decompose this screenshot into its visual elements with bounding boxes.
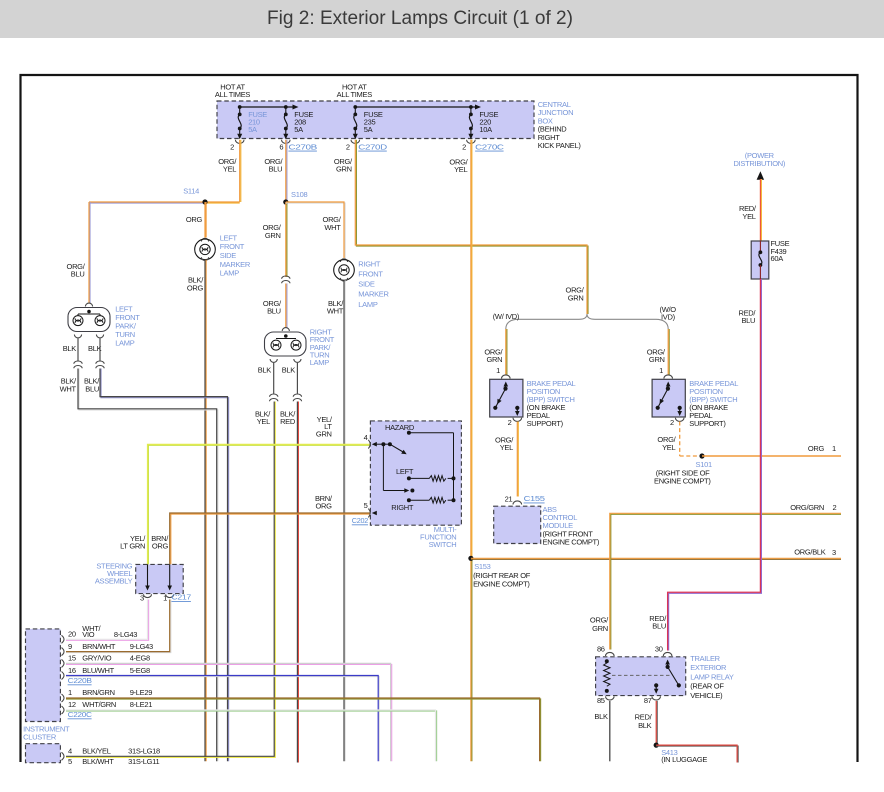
svg-text:1: 1 [68,688,72,697]
svg-text:BLK: BLK [63,344,77,353]
svg-text:9-LG43: 9-LG43 [130,642,153,651]
svg-text:YEL: YEL [257,417,270,426]
svg-text:WHT: WHT [60,385,77,394]
svg-text:21: 21 [505,494,513,503]
svg-text:C155: C155 [524,494,545,503]
svg-text:GRN: GRN [592,624,608,633]
svg-text:ORG/GRN: ORG/GRN [790,503,824,512]
svg-text:2: 2 [508,418,512,427]
svg-text:VIO: VIO [82,630,94,639]
svg-text:BLK: BLK [282,365,296,374]
svg-text:GRY/VIO: GRY/VIO [82,654,111,663]
svg-text:RED: RED [280,417,296,426]
svg-text:C270B: C270B [288,142,317,151]
svg-text:2: 2 [833,503,837,512]
svg-text:4: 4 [364,433,368,442]
svg-text:ORG: ORG [187,283,204,292]
svg-text:GRN: GRN [487,355,503,364]
svg-text:5: 5 [364,501,368,510]
svg-text:ORG: ORG [808,444,825,453]
svg-text:LAMP: LAMP [220,269,240,278]
svg-text:LEFT: LEFT [396,467,414,476]
svg-text:4: 4 [68,747,72,756]
svg-text:BLU: BLU [269,165,283,174]
svg-text:LAMP: LAMP [310,358,330,367]
svg-text:BRN/WHT: BRN/WHT [82,642,116,651]
svg-text:GRN: GRN [336,165,352,174]
svg-text:WHT: WHT [324,223,341,232]
svg-text:VEHICLE): VEHICLE) [690,691,723,700]
svg-text:2: 2 [462,142,466,151]
svg-text:20: 20 [68,630,76,639]
svg-text:12: 12 [68,700,76,709]
svg-text:1: 1 [496,366,500,375]
svg-text:IVD): IVD) [661,312,676,321]
svg-text:LAMP RELAY: LAMP RELAY [690,672,734,681]
svg-text:YEL: YEL [454,165,467,174]
svg-text:S153: S153 [474,562,490,571]
svg-text:5-EG8: 5-EG8 [130,666,150,675]
svg-text:87: 87 [644,696,652,705]
svg-text:31S-LG18: 31S-LG18 [128,747,160,756]
svg-text:SIDE: SIDE [358,280,375,289]
svg-text:10A: 10A [479,125,492,134]
svg-text:LT GRN: LT GRN [120,541,145,550]
svg-text:BLU/WHT: BLU/WHT [82,666,114,675]
svg-text:FRONT: FRONT [358,270,383,279]
svg-text:8-LE21: 8-LE21 [130,700,153,709]
svg-text:S114: S114 [183,186,199,195]
svg-text:LEFT: LEFT [220,233,238,242]
svg-text:ALL TIMES: ALL TIMES [337,90,373,99]
svg-text:SIDE: SIDE [220,251,237,260]
svg-text:YEL: YEL [742,212,755,221]
svg-text:GRN: GRN [568,293,584,302]
svg-text:BLK/WHT: BLK/WHT [82,757,114,766]
svg-text:SUPPORT): SUPPORT) [689,419,726,428]
svg-text:2: 2 [670,418,674,427]
svg-text:60A: 60A [771,254,784,263]
svg-text:TRAILER: TRAILER [690,654,720,663]
svg-text:WHT/GRN: WHT/GRN [82,700,116,709]
svg-text:ORG: ORG [152,541,169,550]
svg-text:6: 6 [279,142,283,151]
svg-text:RIGHT: RIGHT [358,259,381,268]
svg-text:85: 85 [597,696,605,705]
svg-text:9-LE29: 9-LE29 [130,688,153,697]
svg-text:BLU: BLU [741,316,755,325]
svg-text:1: 1 [659,366,663,375]
svg-text:KICK PANEL): KICK PANEL) [538,141,582,150]
svg-text:ENGINE COMPT): ENGINE COMPT) [473,580,530,589]
svg-text:15: 15 [68,654,76,663]
svg-text:1: 1 [832,444,836,453]
svg-text:BLU: BLU [85,385,99,394]
svg-text:86: 86 [597,644,605,653]
svg-text:2: 2 [346,142,350,151]
svg-text:1: 1 [163,593,167,602]
svg-text:Fig 2: Exterior Lamps Circuit: Fig 2: Exterior Lamps Circuit (1 of 2) [267,8,573,29]
svg-text:EXTERIOR: EXTERIOR [690,663,727,672]
svg-text:SUPPORT): SUPPORT) [527,419,564,428]
svg-text:LAMP: LAMP [358,300,378,309]
svg-text:GRN: GRN [265,231,281,240]
svg-text:16: 16 [68,666,76,675]
svg-text:BLK: BLK [258,365,272,374]
svg-text:GRN: GRN [649,355,665,364]
svg-text:5A: 5A [294,125,303,134]
svg-text:(IN LUGGAGE: (IN LUGGAGE [661,755,707,764]
svg-text:(W/ IVD): (W/ IVD) [493,312,520,321]
svg-text:C270C: C270C [475,142,505,151]
svg-text:CLUSTER: CLUSTER [23,732,57,741]
svg-text:8-LG43: 8-LG43 [114,630,137,639]
svg-text:4-EG8: 4-EG8 [130,654,150,663]
svg-text:BLU: BLU [652,621,666,630]
svg-text:3: 3 [832,548,836,557]
svg-text:ENGINE COMPT): ENGINE COMPT) [543,538,600,547]
svg-text:WHT: WHT [327,306,344,315]
svg-text:YEL: YEL [662,443,675,452]
svg-text:C220B: C220B [68,676,92,685]
svg-text:RIGHT: RIGHT [391,503,414,512]
svg-text:30: 30 [655,644,663,653]
svg-text:ORG: ORG [316,501,333,510]
svg-text:SWITCH: SWITCH [429,540,457,549]
svg-text:3: 3 [140,593,144,602]
svg-text:C217: C217 [171,593,191,602]
svg-text:BLK/YEL: BLK/YEL [82,747,110,756]
svg-text:5: 5 [68,757,72,766]
svg-text:5A: 5A [364,125,373,134]
svg-text:DISTRIBUTION): DISTRIBUTION) [734,159,786,168]
svg-text:BLU: BLU [71,270,85,279]
svg-text:ENGINE COMPT): ENGINE COMPT) [654,477,711,486]
svg-text:5A: 5A [248,125,257,134]
svg-text:YEL: YEL [500,443,513,452]
svg-text:ORG/BLK: ORG/BLK [794,547,826,556]
svg-text:MARKER: MARKER [220,260,251,269]
svg-text:YEL: YEL [223,165,236,174]
svg-text:ASSEMBLY: ASSEMBLY [95,576,133,585]
svg-text:C202: C202 [352,516,368,525]
svg-text:C270D: C270D [358,142,388,151]
svg-text:MARKER: MARKER [358,290,389,299]
svg-text:BLU: BLU [267,306,281,315]
svg-text:HAZARD: HAZARD [385,423,415,432]
svg-text:LAMP: LAMP [115,339,135,348]
svg-text:FRONT: FRONT [220,242,245,251]
svg-text:BLK: BLK [594,712,608,721]
svg-text:S101: S101 [696,460,712,469]
svg-text:(REAR OF: (REAR OF [690,682,724,691]
svg-text:31S-LG11: 31S-LG11 [128,757,159,766]
svg-text:BRN/GRN: BRN/GRN [82,688,115,697]
svg-text:2: 2 [230,142,234,151]
svg-text:ALL TIMES: ALL TIMES [215,90,251,99]
svg-text:9: 9 [68,642,72,651]
svg-text:S108: S108 [291,190,307,199]
svg-text:ORG: ORG [186,215,203,224]
svg-text:BLK: BLK [638,721,652,730]
svg-text:GRN: GRN [316,429,332,438]
